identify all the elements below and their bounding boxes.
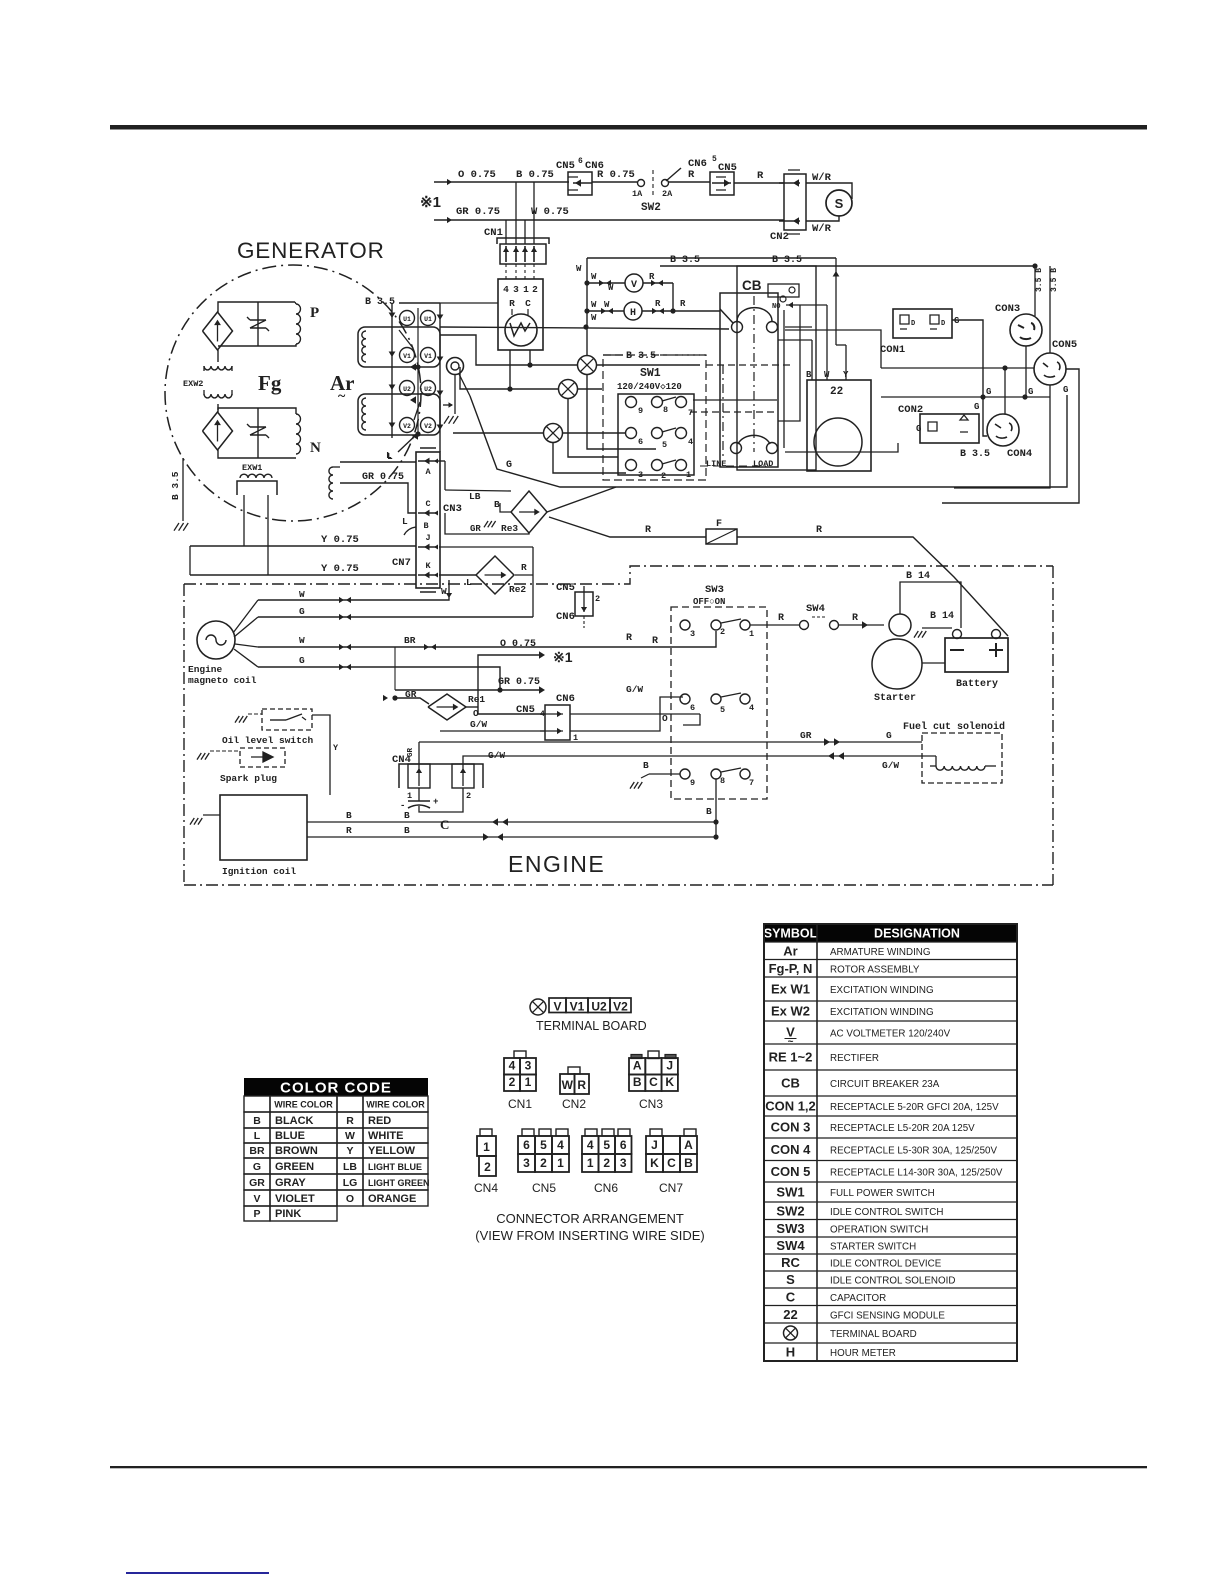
wire B 0.75 to CN5/CN6 [512, 169, 569, 182]
wire G (magneto 2) [258, 606, 533, 620]
connector arrangement CN7 [646, 1129, 697, 1195]
rectifier Re3 [438, 461, 547, 534]
svg-text:L: L [466, 577, 472, 588]
svg-text:G/W: G/W [626, 684, 643, 695]
svg-text:3: 3 [690, 629, 695, 639]
wire GR 0.75 out [395, 647, 545, 694]
svg-text:RECTIFER: RECTIFER [830, 1053, 879, 1064]
svg-text:BR: BR [249, 1145, 265, 1157]
svg-text:Ex W2: Ex W2 [771, 1004, 810, 1019]
svg-text:FULL POWER SWITCH: FULL POWER SWITCH [830, 1188, 935, 1199]
svg-text:L: L [402, 516, 408, 527]
svg-text:R: R [688, 169, 695, 181]
svg-text:CB: CB [742, 278, 762, 293]
svg-text:SW2: SW2 [641, 202, 661, 214]
zener (P side) [247, 302, 269, 346]
svg-text:B 3.5: B 3.5 [170, 471, 181, 500]
svg-text:RECEPTACLE L5-30R 30A, 125/2: RECEPTACLE L5-30R 30A, 125/250V [830, 1145, 997, 1156]
connector arrangement CN4 [474, 1129, 498, 1195]
svg-text:7: 7 [749, 778, 754, 788]
svg-text:F: F [716, 519, 722, 530]
svg-text:SYMBOL: SYMBOL [764, 927, 818, 941]
svg-text:B 14: B 14 [906, 571, 930, 582]
svg-text:R: R [680, 299, 686, 309]
svg-text:8: 8 [663, 405, 668, 415]
svg-text:O 0.75: O 0.75 [500, 639, 536, 650]
svg-text:Engine: Engine [188, 664, 223, 675]
svg-text:V2: V2 [613, 1000, 628, 1014]
svg-text:O: O [662, 713, 668, 724]
ground bus G wires [785, 330, 1068, 452]
svg-text:O 0.75: O 0.75 [458, 169, 496, 181]
svg-text:AC VOLTMETER 120/240V: AC VOLTMETER 120/240V [830, 1029, 951, 1040]
svg-text:C: C [649, 1075, 658, 1089]
hour meter H [584, 299, 720, 320]
generator label [237, 238, 385, 263]
svg-text:W: W [441, 586, 447, 597]
svg-text:R: R [757, 170, 764, 182]
svg-text:P: P [310, 305, 319, 321]
wire GR 0.75 input [434, 206, 506, 223]
armature winding Ar block [358, 297, 498, 452]
receptacle CON4 [920, 414, 1032, 460]
wire B 3.5 left ground [121, 458, 188, 531]
armature terminal U2 U2 [400, 381, 436, 421]
svg-text:R: R [649, 272, 655, 282]
svg-text:U2: U2 [424, 386, 432, 393]
svg-text:RE 1~2: RE 1~2 [769, 1050, 813, 1065]
svg-text:CN5: CN5 [532, 1181, 556, 1195]
svg-text:2: 2 [466, 791, 471, 801]
svg-text:BLUE: BLUE [275, 1130, 305, 1142]
wire R with fuse F [549, 517, 1008, 636]
svg-text:LIGHT GREEN: LIGHT GREEN [368, 1178, 430, 1188]
svg-text:GR 0.75: GR 0.75 [362, 472, 404, 483]
svg-text:4: 4 [688, 437, 693, 447]
svg-text:2A: 2A [662, 189, 673, 199]
engine label [508, 851, 605, 877]
svg-text:G: G [506, 460, 512, 471]
svg-text:5: 5 [720, 705, 725, 715]
svg-text:Y: Y [346, 1145, 353, 1157]
svg-text:G: G [299, 606, 305, 617]
pilot lamp 1 [440, 335, 700, 375]
wire R 0.75 [592, 169, 637, 182]
svg-text:4: 4 [587, 1138, 594, 1152]
svg-text:S: S [786, 1272, 795, 1287]
zener (N side) [247, 408, 269, 458]
svg-text:9: 9 [638, 406, 643, 416]
svg-text:※1: ※1 [553, 649, 573, 665]
connector arrangement CN6 [582, 1129, 632, 1195]
svg-text:P: P [253, 1208, 260, 1220]
svg-text:A: A [425, 467, 431, 477]
spark plug [197, 748, 307, 784]
wire B 3.5 bus top right [660, 255, 1038, 277]
connector arrangement caption [475, 1211, 704, 1243]
svg-text:CON4: CON4 [1007, 448, 1032, 460]
svg-text:LB: LB [343, 1161, 357, 1173]
top rule [110, 125, 1147, 130]
svg-text:U1: U1 [403, 316, 411, 323]
rectifier diode (P side) [203, 312, 233, 350]
svg-text:B: B [346, 810, 352, 821]
svg-text:1: 1 [483, 1140, 490, 1154]
svg-text:G: G [954, 316, 959, 326]
svg-text:G: G [299, 655, 305, 666]
svg-text:RECEPTACLE L5-20R 20A 125V: RECEPTACLE L5-20R 20A 125V [830, 1123, 975, 1134]
svg-text:A: A [684, 1138, 693, 1152]
svg-text:CON5: CON5 [1052, 339, 1077, 351]
svg-text:GR: GR [470, 524, 481, 534]
rotor winding P [218, 302, 319, 362]
rectifier diode (N side) [203, 412, 233, 450]
svg-text:L: L [386, 450, 392, 461]
wire GR 0.75 to CN3 [340, 451, 416, 513]
svg-text:B: B [253, 1115, 261, 1127]
connector arrangement CN1 [504, 1051, 536, 1111]
svg-text:CN3: CN3 [443, 503, 462, 515]
svg-text:PINK: PINK [275, 1208, 301, 1220]
svg-text:ORANGE: ORANGE [368, 1193, 416, 1205]
svg-text:G: G [986, 387, 991, 397]
svg-text:CN6: CN6 [688, 158, 707, 170]
bottom rule [110, 1466, 1147, 1468]
svg-text:R: R [852, 613, 858, 624]
svg-text:SW2: SW2 [776, 1203, 804, 1218]
svg-text:CN2: CN2 [562, 1097, 586, 1111]
wire B ignition top [307, 810, 716, 826]
svg-text:SW1: SW1 [640, 367, 661, 380]
ignition coil [190, 795, 307, 877]
svg-text:G: G [886, 730, 892, 741]
svg-text:N: N [310, 440, 321, 456]
svg-text:1: 1 [525, 1075, 532, 1089]
svg-text:(VIEW FROM INSERTING WIRE SIDE: (VIEW FROM INSERTING WIRE SIDE) [475, 1228, 704, 1243]
svg-text:O: O [346, 1193, 354, 1205]
svg-text:C: C [667, 1156, 676, 1170]
svg-text:G: G [974, 402, 979, 412]
svg-text:U2: U2 [403, 386, 411, 393]
svg-text:CONNECTOR ARRANGEMENT: CONNECTOR ARRANGEMENT [496, 1211, 684, 1226]
svg-text:R: R [346, 1115, 354, 1127]
svg-text:COLOR CODE: COLOR CODE [280, 1080, 392, 1097]
terminal board node [443, 358, 470, 415]
svg-text:R: R [645, 525, 651, 536]
wire G from terminal node [470, 395, 1067, 487]
svg-text:5: 5 [662, 440, 667, 450]
svg-text:6: 6 [638, 437, 643, 447]
armature terminal V1 V1 [400, 348, 436, 371]
svg-text:8: 8 [720, 776, 725, 786]
svg-text:B: B [633, 1075, 642, 1089]
svg-text:G: G [1063, 385, 1068, 395]
svg-text:W: W [604, 300, 610, 310]
svg-text:7: 7 [688, 408, 693, 418]
idle control device RC block 4 3 1 2 [498, 279, 543, 350]
svg-text:WIRE COLOR: WIRE COLOR [274, 1100, 333, 1110]
svg-text:G: G [253, 1161, 261, 1173]
svg-text:R: R [778, 613, 784, 624]
svg-text:magneto coil: magneto coil [188, 675, 257, 686]
svg-text:TERMINAL BOARD: TERMINAL BOARD [536, 1019, 647, 1033]
wire W 0.75 to CN2 [506, 206, 784, 220]
svg-text:V2: V2 [403, 423, 411, 430]
svg-text:1: 1 [749, 629, 754, 639]
svg-text:K: K [425, 561, 431, 571]
color code table [244, 1078, 430, 1221]
svg-text:LOAD: LOAD [753, 459, 773, 469]
receptacle CON5 [1034, 266, 1077, 385]
svg-text:LG: LG [343, 1177, 358, 1189]
svg-text:CN4: CN4 [474, 1181, 498, 1195]
svg-text:B 3.5: B 3.5 [626, 351, 656, 362]
svg-text:ENGINE: ENGINE [508, 851, 605, 877]
svg-text:CIRCUIT BREAKER 23A: CIRCUIT BREAKER 23A [830, 1079, 940, 1090]
svg-text:U1: U1 [424, 316, 432, 323]
svg-text:V: V [553, 1000, 561, 1014]
svg-text:B: B [494, 499, 500, 510]
svg-text:BLACK: BLACK [275, 1115, 314, 1127]
svg-text:R: R [346, 825, 352, 836]
svg-text:6: 6 [578, 157, 583, 166]
svg-text:VIOLET: VIOLET [275, 1193, 315, 1205]
svg-text:GREEN: GREEN [275, 1161, 314, 1173]
svg-text:CN7: CN7 [392, 557, 411, 569]
footer link underline [126, 1572, 269, 1574]
svg-text:2: 2 [603, 1156, 610, 1170]
svg-text:+: + [433, 797, 438, 807]
svg-text:CN7: CN7 [659, 1181, 683, 1195]
svg-text:G/W: G/W [882, 760, 899, 771]
engine magneto coil [188, 600, 258, 686]
fuel cut solenoid [903, 721, 1005, 783]
svg-text:G/W: G/W [470, 719, 487, 730]
wire G/W to fuel solenoid [463, 750, 936, 771]
svg-text:CB: CB [781, 1076, 800, 1091]
svg-text:4: 4 [557, 1138, 564, 1152]
circuit breaker CB [690, 266, 827, 470]
rectifier Re1 [371, 689, 485, 720]
connector arrangement CN3 [629, 1051, 678, 1111]
GFCI sensing module 22 [778, 305, 871, 471]
operation switch SW3 [671, 584, 767, 799]
svg-text:NO: NO [772, 303, 780, 311]
svg-text:R: R [652, 636, 658, 647]
svg-text:2: 2 [720, 627, 725, 637]
receptacle CON3 [995, 266, 1044, 397]
svg-text:GFCI SENSING MODULE: GFCI SENSING MODULE [830, 1310, 945, 1321]
svg-text:R: R [655, 299, 661, 309]
svg-text:3: 3 [523, 1156, 530, 1170]
AC voltmeter V [584, 272, 673, 311]
wire R right (to fuse area) [715, 646, 717, 648]
connector arrangement CN5 [518, 1129, 569, 1195]
svg-text:5: 5 [712, 155, 717, 164]
svg-text:W: W [591, 313, 597, 323]
svg-text:2: 2 [509, 1075, 516, 1089]
svg-text:RC: RC [781, 1255, 800, 1270]
connector CN5-CN6 lower [516, 693, 578, 743]
svg-text:C: C [525, 298, 531, 309]
svg-text:4: 4 [509, 1059, 516, 1073]
svg-text:CN6: CN6 [556, 693, 575, 705]
svg-text:SW1: SW1 [776, 1185, 804, 1200]
svg-text:BROWN: BROWN [275, 1145, 318, 1157]
connector arrangement CN2 [560, 1067, 589, 1111]
svg-text:1: 1 [557, 1156, 564, 1170]
svg-text:W: W [591, 300, 597, 310]
svg-text:Ex W1: Ex W1 [771, 982, 810, 997]
capacitor C [400, 788, 463, 832]
svg-text:3: 3 [620, 1156, 627, 1170]
svg-text:C: C [440, 817, 449, 832]
svg-text:J: J [651, 1138, 658, 1152]
svg-text:3.5 B: 3.5 B [1035, 268, 1044, 292]
svg-text:2: 2 [595, 594, 600, 604]
svg-text:W/R: W/R [812, 223, 832, 235]
svg-text:B: B [643, 760, 649, 771]
svg-text:WIRE COLOR: WIRE COLOR [366, 1100, 425, 1110]
connector CN4 [392, 747, 483, 801]
svg-text:1: 1 [407, 791, 412, 801]
svg-text:ROTOR ASSEMBLY: ROTOR ASSEMBLY [830, 964, 920, 975]
svg-text:R: R [816, 525, 822, 536]
svg-text:2: 2 [540, 1156, 547, 1170]
svg-text:B: B [706, 806, 712, 817]
svg-text:SW4: SW4 [806, 603, 825, 615]
svg-text:V1: V1 [570, 1000, 585, 1014]
svg-text:CAPACITOR: CAPACITOR [830, 1293, 886, 1304]
svg-text:R 0.75: R 0.75 [597, 169, 635, 181]
svg-text:WHITE: WHITE [368, 1130, 403, 1142]
svg-text:R: R [521, 562, 527, 573]
svg-text:Y 0.75: Y 0.75 [321, 563, 359, 575]
svg-text:GENERATOR: GENERATOR [237, 238, 385, 263]
svg-text:SW4: SW4 [776, 1238, 805, 1253]
svg-text:B 3.5: B 3.5 [772, 255, 802, 266]
svg-text:Re3: Re3 [501, 523, 518, 534]
receptacle CON1 [880, 309, 983, 397]
wire L top of strip [386, 433, 418, 461]
svg-text:D: D [941, 320, 945, 328]
svg-text:22: 22 [830, 386, 843, 398]
svg-text:R: R [626, 633, 632, 644]
svg-text:CON 3: CON 3 [771, 1120, 811, 1135]
svg-text:DESIGNATION: DESIGNATION [874, 927, 960, 941]
svg-text:W: W [299, 635, 305, 646]
svg-text:CON 4: CON 4 [771, 1142, 812, 1157]
svg-text:LIGHT BLUE: LIGHT BLUE [368, 1162, 422, 1172]
svg-text:CN6: CN6 [594, 1181, 618, 1195]
svg-text:Re2: Re2 [509, 584, 526, 595]
wire B ignition bottom [307, 825, 716, 841]
svg-text:RECEPTACLE L14-30R 30A, 125/: RECEPTACLE L14-30R 30A, 125/250V [830, 1167, 1003, 1178]
svg-text:CN2: CN2 [770, 231, 789, 243]
svg-text:W 0.75: W 0.75 [531, 206, 569, 218]
svg-text:Fg-P, N: Fg-P, N [769, 961, 813, 976]
wire RC row [440, 324, 729, 389]
svg-text:6: 6 [620, 1138, 627, 1152]
armature terminal V2 V2 [400, 418, 436, 440]
svg-text:Y 0.75: Y 0.75 [321, 534, 359, 546]
switch SW1 full power [603, 351, 706, 481]
wire O to CN5 lower [465, 707, 700, 725]
svg-text:B 3.5: B 3.5 [365, 297, 395, 308]
svg-text:B 0.75: B 0.75 [516, 169, 554, 181]
svg-text:B: B [806, 370, 812, 380]
wire G (magneto 4) [258, 655, 503, 693]
svg-text:GR: GR [800, 730, 812, 741]
svg-text:2: 2 [484, 1160, 491, 1174]
wire R to CN6/CN5 [668, 169, 710, 182]
svg-text:CN1: CN1 [508, 1097, 532, 1111]
svg-text:LINE: LINE [706, 459, 726, 469]
svg-text:C: C [786, 1289, 796, 1304]
svg-text:EXCITATION WINDING: EXCITATION WINDING [830, 1007, 934, 1018]
svg-text:IDLE CONTROL SWITCH: IDLE CONTROL SWITCH [830, 1207, 943, 1218]
svg-text:GR 0.75: GR 0.75 [498, 677, 540, 688]
wire O 0.75 input [434, 169, 512, 185]
svg-text:RED: RED [368, 1115, 391, 1127]
battery [945, 630, 1008, 691]
pilot lamp 3 [453, 375, 656, 473]
svg-text:22: 22 [783, 1307, 797, 1322]
svg-text:B: B [423, 521, 428, 531]
svg-text:CN3: CN3 [639, 1097, 663, 1111]
svg-text:1: 1 [587, 1156, 594, 1170]
svg-text:CN6: CN6 [556, 611, 575, 623]
svg-text:5: 5 [540, 1138, 547, 1152]
svg-text:TERMINAL BOARD: TERMINAL BOARD [830, 1329, 917, 1340]
wire W below strip [441, 586, 452, 598]
svg-text:K: K [665, 1075, 674, 1089]
svg-text:W: W [299, 589, 305, 600]
svg-text:~: ~ [338, 389, 346, 404]
svg-text:L: L [254, 1130, 261, 1142]
svg-text:W: W [608, 283, 614, 293]
svg-text:EXW2: EXW2 [183, 379, 203, 389]
svg-text:GRAY: GRAY [275, 1177, 306, 1189]
stator coil (gray wire) [329, 467, 340, 499]
svg-text:GR: GR [407, 747, 415, 757]
wire O 0.75 out [478, 639, 573, 707]
svg-text:STARTER SWITCH: STARTER SWITCH [830, 1242, 916, 1253]
svg-text:A: A [633, 1059, 642, 1073]
engine enclosure [184, 566, 1053, 885]
connector CN5/CN6 mid [556, 582, 600, 628]
svg-text:3: 3 [525, 1059, 532, 1073]
svg-text:B: B [684, 1156, 693, 1170]
svg-text:GR 0.75: GR 0.75 [456, 206, 500, 218]
svg-text:6: 6 [523, 1138, 530, 1152]
svg-text:ARMATURE WINDING: ARMATURE WINDING [830, 947, 931, 958]
svg-text:SW3: SW3 [776, 1221, 804, 1236]
svg-text:CON 1,2: CON 1,2 [765, 1099, 816, 1114]
svg-text:W: W [345, 1130, 355, 1142]
svg-text:1: 1 [686, 470, 691, 480]
svg-text:OPERATION SWITCH: OPERATION SWITCH [830, 1224, 928, 1235]
ground (generator left) [0, 0, 1, 1]
svg-text:J: J [666, 1059, 673, 1073]
svg-text:B 14: B 14 [930, 611, 954, 622]
idle control solenoid S [806, 183, 852, 221]
terminal board legend [530, 998, 647, 1033]
wire GR to fuel solenoid [419, 730, 922, 764]
ground (armature) [444, 416, 458, 424]
svg-text:SW3: SW3 [705, 584, 724, 596]
svg-text:YELLOW: YELLOW [368, 1145, 416, 1157]
